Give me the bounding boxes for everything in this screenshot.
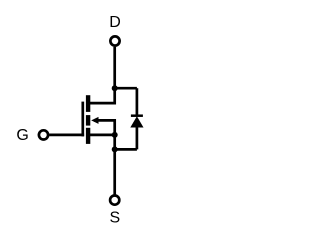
svg-text:G: G [16, 127, 28, 144]
wire D vertical [113, 47, 116, 88]
svg-text:S: S [109, 210, 120, 227]
wire diode anode vertical [136, 127, 139, 149]
junction dot source contact node [112, 132, 118, 138]
wire top horizontal to diode [115, 87, 137, 90]
diode D1 triangle [130, 116, 143, 127]
svg-text:D: D [109, 14, 121, 31]
junction dot bottom node [112, 146, 118, 152]
terminal G circle [39, 130, 48, 139]
transistor Q1 body arrow [91, 117, 98, 124]
wire body contact to bus [94, 120, 115, 149]
diode D1 cathode bar [131, 114, 143, 117]
wire source contact [88, 134, 115, 137]
junction dot drain node [112, 85, 118, 91]
wire gate lead [49, 134, 84, 137]
terminal S circle [110, 196, 119, 205]
wire S vertical [113, 149, 116, 194]
wire bottom horizontal to diode [115, 148, 137, 151]
transistor Q1 channel segment body [86, 115, 90, 126]
transistor Q1 gate bar [81, 102, 84, 137]
transistor Q1 channel segment source [86, 128, 90, 144]
wire drain contact branch [88, 87, 115, 103]
transistor Q1 channel segment drain [86, 95, 90, 112]
wire diode cathode vertical [136, 88, 139, 114]
terminal D circle [110, 36, 119, 45]
